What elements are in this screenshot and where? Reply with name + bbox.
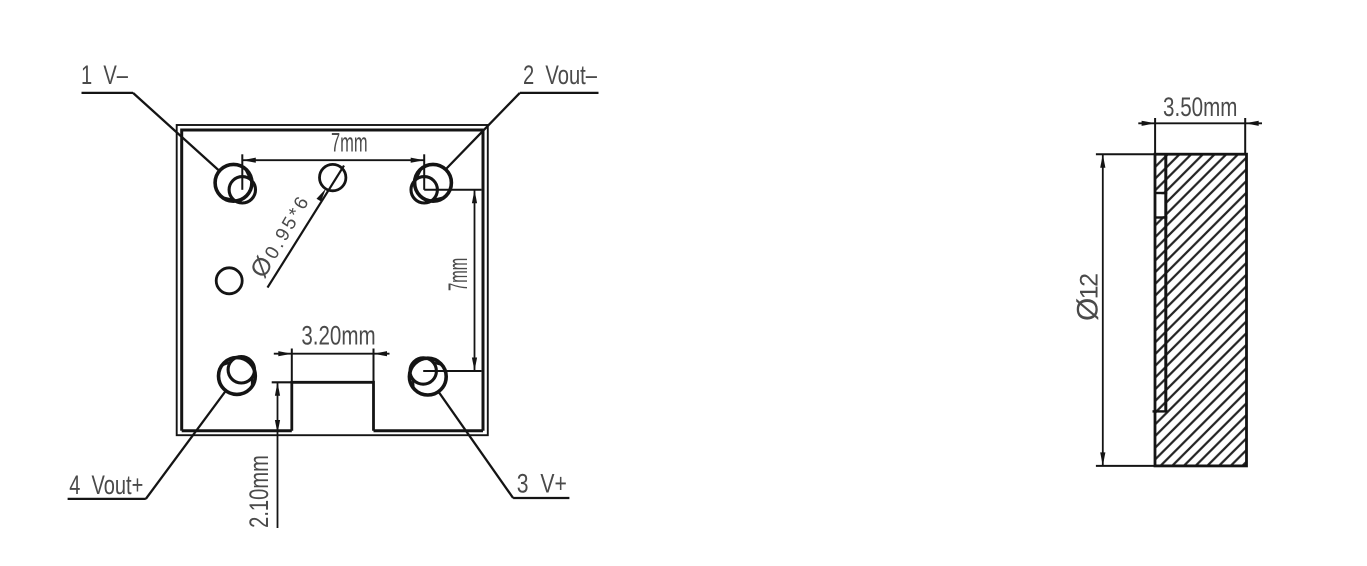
label pin 2 leader [446,93,520,169]
pin strip inner vertical line [1164,154,1167,411]
pin 2 (Vout-) top-right [411,164,451,203]
pin strip tick lower [1155,216,1167,218]
pin 4 (Vout+) bottom-left [219,357,256,395]
dimension 3.50mm: arrowheads (outside) [1142,121,1156,126]
pin strip tick upper [1155,192,1167,194]
inner square of package front view (bottom edge interrupted by notch) [182,130,483,431]
dimension dia 12: arrowheads [1100,154,1105,168]
dimension dia 12: dimension line [1102,154,1104,466]
dimension 3.20mm: dimension line [274,353,390,355]
side view body outline [1155,154,1247,466]
dimension 7mm right: dimension line [474,190,476,371]
label pin 4 leader [146,391,226,499]
svg-text:3.50mm: 3.50mm [1163,92,1237,122]
label pin 3 underline [513,497,569,499]
dimension dia 12: extension lines [1096,153,1155,155]
label pin 3 leader [438,391,513,498]
side view hatched body [1155,154,1247,466]
white gap in pin strip (hole cross-section) [1155,194,1165,216]
dimension 3.20mm: extension lines [291,349,293,383]
svg-text:7mm: 7mm [443,258,473,291]
label pin 2 underline [520,92,599,94]
label pin 4 underline [68,498,146,500]
outer square of package front view [177,125,488,435]
dimension 2.10mm: arrowheads [275,382,280,396]
pin hole circle top-center [320,164,346,190]
leader line for hole diameter callout [268,166,345,288]
dimension 3.50mm: extension lines [1154,118,1156,154]
dimension 7mm right: arrowheads [472,190,477,204]
svg-text:2 Vout–: 2 Vout– [523,60,597,90]
dimension 7mm right: extension lines [424,189,481,191]
dimension 3.50mm: dimension line [1138,122,1262,124]
svg-text:Ø12: Ø12 [1072,273,1105,321]
dimension 2.10mm: dimension line [277,382,279,528]
dimension 2.10mm: extension of notch top to the left [272,381,292,383]
index hole circle mid-left [216,268,242,294]
svg-text:1 V–: 1 V– [81,60,128,90]
bottom notch rectangle [292,382,374,431]
dimension 7mm top: extension lines [241,154,243,190]
pin 3 (V+) bottom-right [409,358,446,395]
pin 1 (V-) top-left [215,164,255,203]
label pin 1 leader [133,93,220,171]
svg-text:4 Vout+: 4 Vout+ [69,470,143,500]
dimension 7mm top: arrowheads [242,158,256,163]
arrowhead of diameter leader [317,189,326,202]
dimension 3.20mm: arrowheads (outside) [278,351,292,356]
svg-text:7mm: 7mm [331,128,368,158]
pin strip bottom foot tick [1153,410,1168,412]
svg-text:3 V+: 3 V+ [517,468,567,498]
dimension 7mm top: dimension line [242,159,424,161]
svg-text:3.20mm: 3.20mm [301,321,375,351]
svg-text:2.10mm: 2.10mm [244,455,274,528]
label pin 1 underline [82,92,134,94]
